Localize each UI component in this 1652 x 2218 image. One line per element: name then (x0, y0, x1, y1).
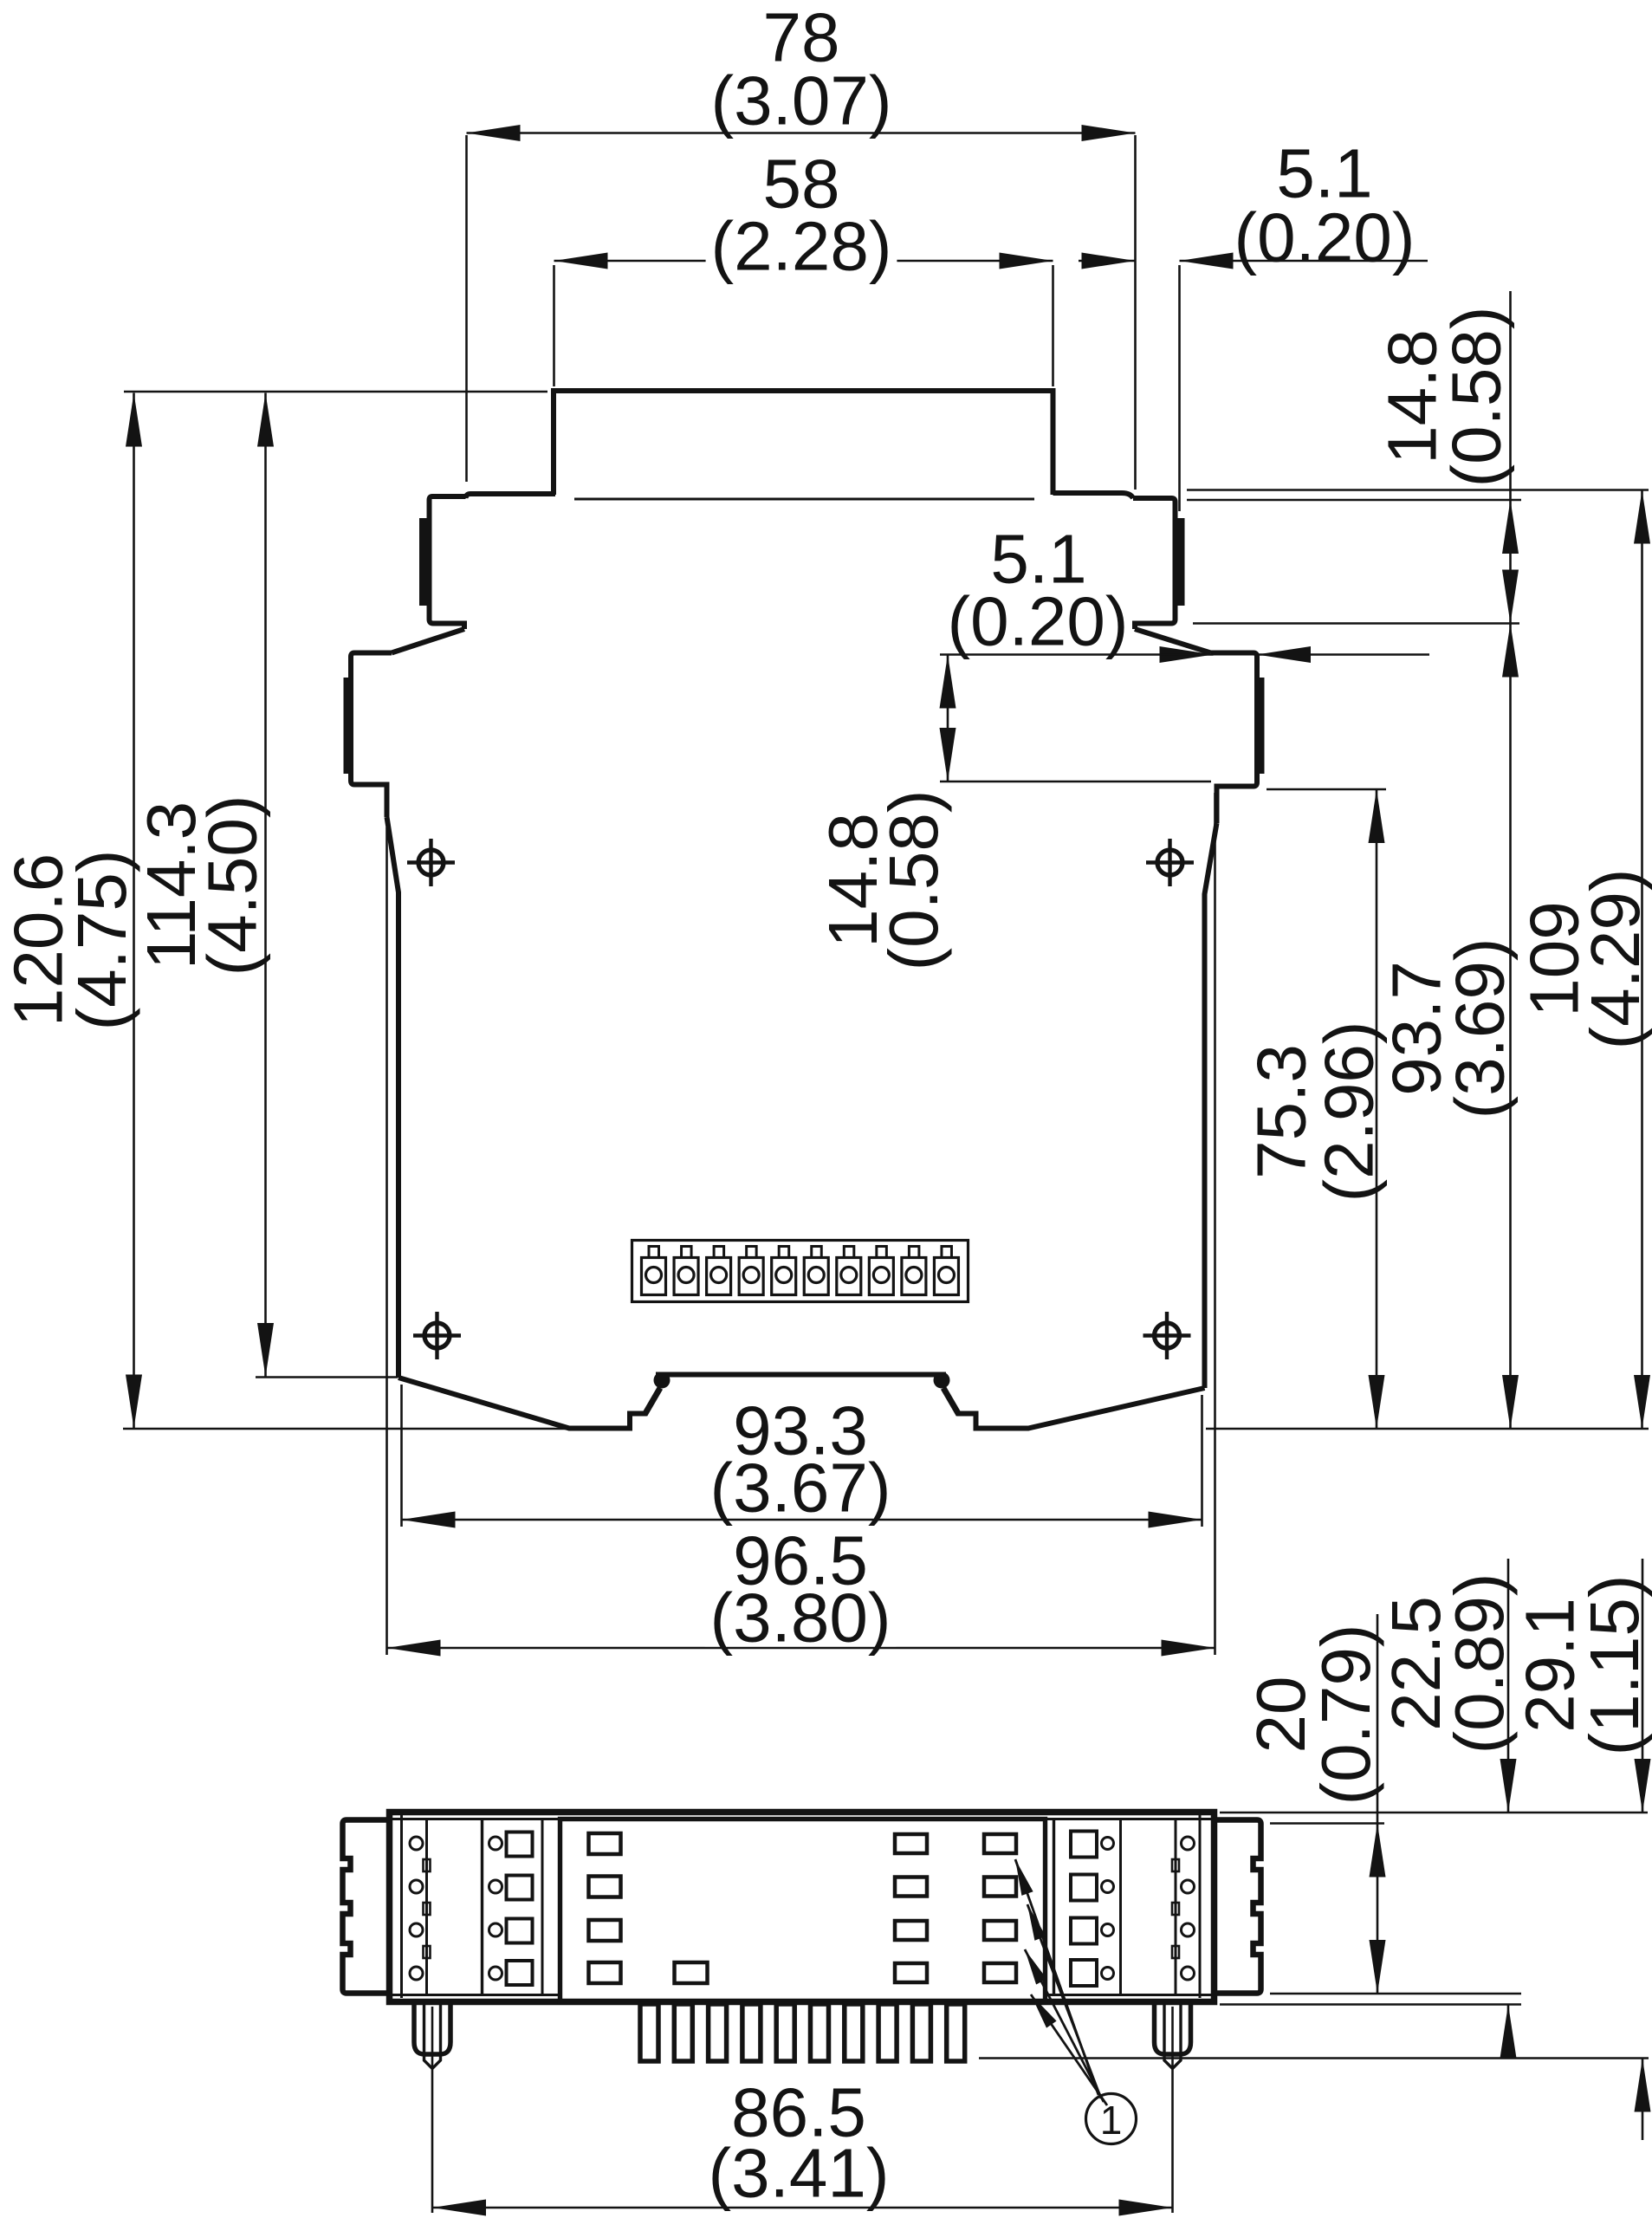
extension line: bottom-left corner down (93.3 dim) (400, 1385, 403, 1527)
extension line: connector left edge upward (58 dim) (553, 265, 555, 386)
extension line: ear top edge to the right (14.8 dim) (1187, 499, 1521, 502)
top view: connector housing at top of module (554, 391, 1053, 495)
top view: lower-right mounting screw mark (1155, 1323, 1180, 1348)
top view: upper-right DIN ear (1133, 498, 1176, 629)
dimension text (3.80) (705, 1588, 897, 1646)
top view: 10-pole terminal block outline (632, 1241, 969, 1302)
svg-text:(4.75): (4.75) (63, 850, 140, 1031)
extension line from body bottom-left corner to the left (256, 1376, 398, 1378)
svg-text:(3.07): (3.07) (711, 62, 892, 139)
dimension line 5.1 mm top (converging arrows) (1079, 260, 1136, 263)
bottom view: central right pads column A (895, 1834, 927, 1853)
dimension line 96.5 mm (387, 1647, 1215, 1650)
svg-text:(4.29): (4.29) (1577, 869, 1652, 1050)
extension line: bottom-right corner down (93.3 dim) (1201, 1395, 1203, 1527)
bottom view: right clamp squares column (1071, 1832, 1097, 1858)
top view: upper-left ear lip (419, 518, 427, 606)
top view: upper-left DIN ear (430, 496, 466, 629)
bottom view: right section divider near center (1053, 1819, 1055, 1995)
bottom view: left end cap with notches (343, 1820, 390, 1994)
svg-text:(0.20): (0.20) (948, 583, 1129, 660)
top view: right slanted edge between ears (1135, 629, 1211, 653)
bottom view: central right pads column B (984, 1834, 1016, 1853)
bottom view: left inner screws column (489, 1837, 502, 1850)
dimension line 14.8 mm mid vertical (947, 655, 949, 782)
top view: DIN recess left hook knob (654, 1372, 671, 1389)
top view: module body top edge right of connector (1053, 493, 1134, 498)
top view: upper-left mounting screw mark (418, 850, 444, 875)
terminal pole 1 (642, 1258, 666, 1295)
dimension text 96.5 (736, 1531, 864, 1589)
bottom view: left section top and bottom inner lines (392, 1818, 560, 1820)
top view: module body top edge left of connector (466, 494, 556, 498)
bottom view: central left pads column (589, 1833, 621, 1854)
top view: bottom edge right with DIN-rail recess step (957, 1388, 1205, 1429)
top view: body left side edge (387, 817, 399, 1378)
top view: bottom edge left with DIN-rail recess step (398, 1378, 646, 1429)
extension line: inner bottom line to the right (20 dim) (1270, 1993, 1521, 1995)
dimension text 58 (769, 154, 833, 212)
dimension text (2.28) (706, 217, 897, 275)
extension line from bottom edge to the left (123, 1428, 571, 1430)
svg-text:(3.80): (3.80) (710, 1579, 891, 1657)
bottom view: right section mid divider (1119, 1819, 1122, 1995)
extension line: upper-right ear bottom to the right (1193, 622, 1519, 625)
extension line: body top edge to the right (109 dim) (1187, 489, 1649, 491)
dimension line 93.3 mm (402, 1519, 1202, 1521)
dimension line 109 mm vertical (1641, 490, 1643, 1430)
svg-text:(2.96): (2.96) (1311, 1021, 1388, 1203)
dimension text 93.3 (736, 1401, 864, 1459)
dimension line 114.3 mm vertical (264, 393, 267, 1378)
top view: left slanted edge between ears (392, 629, 464, 653)
bottom view: right section top and bottom inner lines (1046, 1818, 1212, 1820)
bottom view: right section divider near cap (1199, 1815, 1202, 1998)
top view: DIN recess left diagonal (645, 1388, 660, 1415)
extension line: feet bottom level (979, 2057, 1649, 2059)
dimension text (3.41) (703, 2143, 895, 2202)
bottom view: module body outline (390, 1813, 1215, 2002)
top view: DIN recess right diagonal (943, 1388, 959, 1415)
bottom view: left terminal screws column (410, 1837, 423, 1850)
top view: lower-right DIN ear (1211, 653, 1258, 824)
terminal pole 4 (739, 1258, 763, 1295)
terminal pole 7 (837, 1258, 861, 1295)
extension line: left foot center down (86.5 dim) (431, 2007, 434, 2213)
top view: lower-right ear lip (1257, 678, 1265, 774)
svg-text:(0.58): (0.58) (875, 790, 952, 971)
svg-text:(4.50): (4.50) (194, 795, 271, 976)
bottom view: left latch rail with tabs (425, 1819, 428, 1995)
terminal pole 2 (674, 1258, 698, 1295)
dimension line 78 mm (467, 132, 1136, 134)
dimension line 120.6 mm vertical (133, 393, 135, 1429)
bottom view: left section mid divider (481, 1819, 483, 1995)
callout leader arrows to pads (1015, 1859, 1098, 2095)
terminal pole 3 (707, 1258, 731, 1295)
dimension line 58 mm (554, 260, 1053, 263)
dimension text (3.67) (705, 1458, 897, 1516)
callout circled 1 (1086, 2094, 1137, 2144)
extension line: upper-right ear lip upward (5.1 dim) (1178, 265, 1181, 511)
svg-text:(3.69): (3.69) (1441, 938, 1519, 1119)
top view: module body front edge behind connector (574, 498, 1034, 501)
top view: lower-left DIN ear (351, 653, 392, 818)
dimension line 86.5 mm (432, 2207, 1173, 2209)
extension line: bottom view top edge to the right (1220, 1812, 1648, 1814)
top view: DIN recess right hook knob (934, 1372, 950, 1389)
svg-text:(2.28): (2.28) (711, 208, 892, 285)
svg-text:(0.79): (0.79) (1307, 1625, 1384, 1806)
terminal pole 5 (772, 1258, 796, 1295)
extension line: lower-right ear bottom to the left (14.8 mid) (940, 781, 1211, 783)
bottom view: left section divider near cap (400, 1815, 403, 1998)
extension line: body top-left corner upward (78 dim) (465, 135, 468, 482)
top view: DIN recess raised center edge (656, 1372, 946, 1378)
top view: lower-left ear lip (344, 678, 352, 774)
dimension line 75.3 mm vertical (1376, 789, 1378, 1429)
svg-text:1: 1 (1100, 2098, 1123, 2143)
terminal pole 10 (934, 1258, 958, 1295)
svg-text:(0.58): (0.58) (1438, 307, 1515, 488)
dimension text 86.5 (735, 2083, 862, 2141)
terminal pole 9 (902, 1258, 926, 1295)
dimension line 20 mm vertical (1377, 1614, 1379, 1994)
extension line: left body widest edge down (96.5 dim) (385, 827, 388, 1655)
bottom view: right terminal screws column (1182, 1837, 1195, 1850)
dimension line 5.1 mm mid (lower-right ear) with 14.8 top extension (940, 653, 1161, 656)
bottom view: left zipper rail (541, 1819, 544, 1995)
bottom view: left mounting foot (414, 2005, 450, 2054)
top view: upper-right mounting screw mark (1157, 850, 1182, 875)
bottom view: right mounting foot (1155, 2005, 1191, 2054)
extension line: bottom view bottom edge to the right (1220, 2003, 1521, 2006)
extension line from bottom edge to the right (1206, 1428, 1649, 1430)
terminal pole 6 (804, 1258, 828, 1295)
dimension line 29.1 mm vertical with outside arrows (1642, 1559, 1644, 1813)
extension line: right body widest edge down (96.5 dim) (1214, 793, 1216, 1655)
top view: body right side edge (1205, 823, 1217, 1388)
bottom view: right inner screws column (1102, 1838, 1114, 1850)
svg-text:(3.67): (3.67) (710, 1449, 891, 1527)
svg-text:(0.89): (0.89) (1441, 1573, 1518, 1754)
svg-text:(0.20): (0.20) (1234, 199, 1416, 276)
dimension line 14.8 mm right / 93.7 shared vertical (1509, 291, 1512, 1429)
extension line: lower-right ear bottom to the right (75.3 dim) (1267, 788, 1386, 791)
top view: lower-left mounting screw mark (424, 1323, 450, 1348)
bottom view: right end cap with notches (1215, 1820, 1261, 1994)
bottom view: left clamp squares column (507, 1832, 533, 1857)
bottom view: DIN connector pin row (640, 2004, 658, 2061)
svg-text:(3.41): (3.41) (709, 2135, 890, 2212)
extension line: inner top line to the right (20 dim) (1270, 1822, 1384, 1825)
extension line: right foot center down (86.5 dim) (1171, 2007, 1174, 2213)
bottom view: central module block (560, 1819, 1046, 2002)
terminal pole 8 (869, 1258, 893, 1295)
bottom view: central extra pad bottom row (675, 1962, 708, 1983)
svg-text:(1.15): (1.15) (1576, 1575, 1652, 1756)
dimension line 22.5 mm vertical with outside arrows (1507, 1559, 1510, 1813)
top view: upper-right ear lip (1177, 518, 1185, 606)
extension line from connector top-left corner to the left (124, 391, 547, 393)
extension line: connector right edge upward (58 dim) (1052, 265, 1054, 386)
extension line: body top-right corner upward (78 / 5.1 dims) (1134, 135, 1137, 490)
bottom view: right latch rail with tabs (1175, 1819, 1177, 1995)
svg-text:75.3: 75.3 (1243, 1044, 1320, 1179)
